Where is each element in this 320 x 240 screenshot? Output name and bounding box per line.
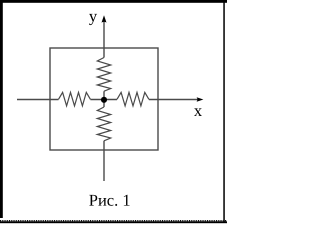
top border bar	[0, 0, 227, 3]
mass node dot	[101, 97, 107, 103]
frame box	[50, 48, 158, 150]
spring right	[117, 92, 149, 106]
spring left	[59, 92, 91, 106]
right border line	[223, 0, 225, 222]
left border bar	[0, 0, 3, 218]
bottom dotted border	[0, 221, 227, 223]
x-axis	[17, 99, 199, 101]
svg-text:Рис. 1: Рис. 1	[89, 191, 131, 210]
y-axis	[103, 21, 105, 181]
svg-text:x: x	[194, 101, 203, 120]
spring top	[97, 58, 110, 92]
svg-text:y: y	[89, 7, 98, 26]
x-axis arrowhead	[197, 97, 204, 101]
spring bottom	[97, 107, 110, 141]
y-axis arrowhead	[102, 15, 107, 22]
